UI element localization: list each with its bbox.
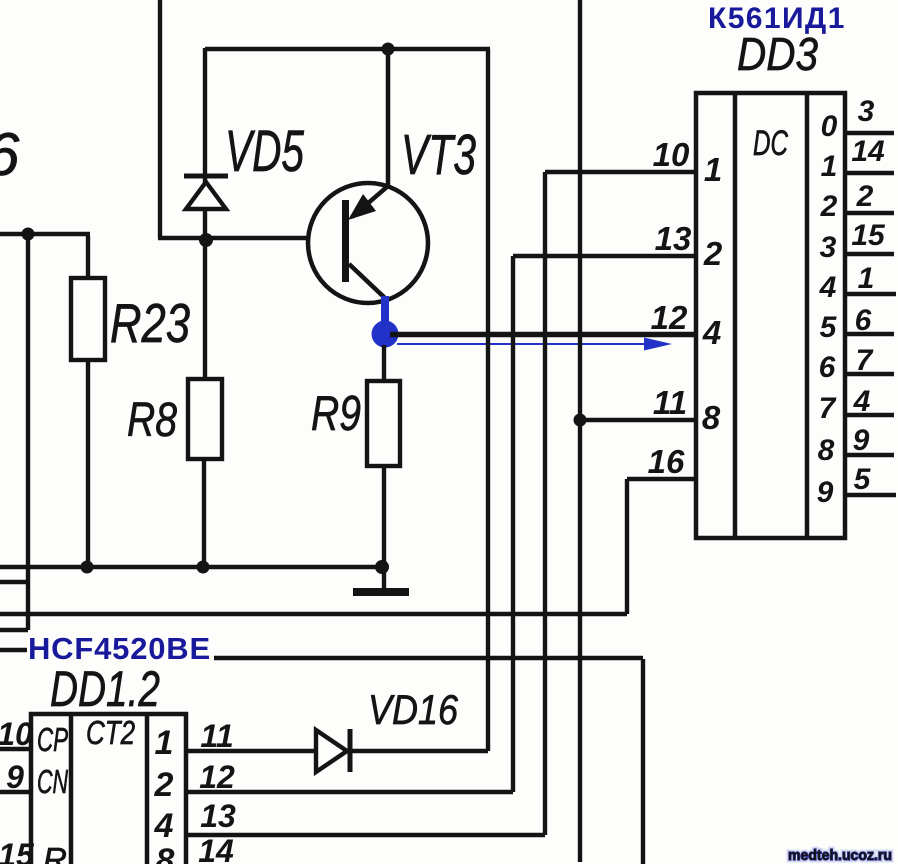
wire: VT3 collector lead vertical <box>386 49 391 188</box>
output 6 line pin 7 <box>845 372 894 376</box>
svg-text:8: 8 <box>156 842 175 864</box>
svg-text:2: 2 <box>856 180 874 213</box>
wire: exit stub y=630 <box>0 628 28 632</box>
wire: DD1.2 pin 10 input <box>0 747 31 751</box>
svg-text:CN: CN <box>37 763 68 800</box>
wire: R9 bottom lead <box>382 466 386 567</box>
junction dot bus D / pin11 wire <box>574 414 587 427</box>
svg-text:4: 4 <box>702 314 721 351</box>
svg-text:R: R <box>43 841 67 864</box>
svg-text:DD3: DD3 <box>737 28 818 80</box>
diode VD5 cathode bar <box>184 174 228 179</box>
svg-text:7: 7 <box>856 344 874 377</box>
svg-text:3: 3 <box>858 95 875 128</box>
svg-text:CT2: CT2 <box>86 714 135 751</box>
wire: bus D vertical full height <box>578 0 582 862</box>
wire: long rail y=614 <box>0 612 627 616</box>
svg-text:DC: DC <box>753 124 788 163</box>
svg-text:6: 6 <box>855 304 872 337</box>
wire: DD3 pin 16 input <box>627 477 696 481</box>
blue pointer line <box>397 343 650 345</box>
svg-text:15: 15 <box>0 837 35 864</box>
svg-text:R9: R9 <box>311 387 361 441</box>
svg-text:12: 12 <box>199 759 235 795</box>
svg-text:R23: R23 <box>110 292 190 354</box>
svg-text:2: 2 <box>154 766 174 804</box>
output 8 line pin 9 <box>845 453 894 457</box>
wire: bus C vertical (DD3 pin10 to DD1.2 pin13) <box>543 172 547 835</box>
junction dot R23/rail <box>81 561 94 574</box>
wire: DD1.2 pin 12 output <box>186 790 513 794</box>
svg-text:1: 1 <box>821 150 838 183</box>
svg-text:9: 9 <box>853 424 870 457</box>
wire: R23 top lead <box>86 236 90 278</box>
wire: VD16 to bus A <box>350 749 488 753</box>
svg-text:CP: CP <box>37 721 68 758</box>
wire: DD3 pin8 input (pin 11) <box>580 418 696 422</box>
IC DD3 right column divider <box>805 93 810 538</box>
svg-text:VT3: VT3 <box>401 123 476 187</box>
wire: DD1.2 pin 13 output <box>186 833 545 837</box>
svg-text:13: 13 <box>655 220 692 257</box>
wire: bus F vertical <box>641 659 645 864</box>
svg-text:1: 1 <box>155 724 174 762</box>
wire: rail corner to VD5 node and transistor base <box>158 236 344 240</box>
wire: R23 bottom lead <box>86 360 90 567</box>
svg-text:0: 0 <box>821 110 838 143</box>
transistor VT3 base bar <box>342 200 349 282</box>
svg-text:16: 16 <box>648 443 685 480</box>
wire: common rail y=567 <box>0 565 382 569</box>
svg-text:13: 13 <box>200 798 236 834</box>
transistor VT3 emitter diagonal <box>349 264 386 299</box>
wire: node to DD3 pin 12 <box>390 332 696 336</box>
IC DD1.2 outline (open bottom) <box>31 714 186 864</box>
svg-text:2: 2 <box>703 235 723 272</box>
wire: exit stub y=582 <box>0 580 28 584</box>
svg-text:R8: R8 <box>127 394 177 447</box>
blue pointer arrowhead <box>644 338 672 351</box>
junction dot VD5 node <box>199 233 213 247</box>
ground bar <box>353 588 409 596</box>
svg-text:14: 14 <box>198 833 234 864</box>
wire: bus A vertical (collector rail to VD16) <box>486 49 490 751</box>
svg-text:8: 8 <box>818 434 835 467</box>
svg-text:4: 4 <box>154 807 174 845</box>
svg-text:5: 5 <box>854 463 872 496</box>
diode VD16 triangle <box>316 730 347 772</box>
ground stem <box>382 567 386 589</box>
wire: rail y=658 (behind HCF label) <box>214 656 643 660</box>
wire: horizontal feed y=234 left edge <box>0 232 90 236</box>
svg-text:DD1.2: DD1.2 <box>50 661 160 717</box>
output 5 line pin 6 <box>845 332 894 336</box>
svg-text:VD5: VD5 <box>225 119 305 184</box>
svg-text:1: 1 <box>858 262 875 295</box>
svg-text:medteh.ucoz.ru: medteh.ucoz.ru <box>788 848 892 864</box>
wire: left supply rail vertical <box>158 0 162 238</box>
transistor VT3 circle <box>308 183 428 303</box>
svg-text:5: 5 <box>820 311 838 344</box>
output 2 line pin 2 <box>845 211 894 215</box>
svg-text:3: 3 <box>820 231 837 264</box>
wire: DD1.2 pin 11 output to VD16 <box>186 749 316 753</box>
wire: R8 bottom lead <box>202 459 206 567</box>
wire: rail y=650 left stub <box>0 648 27 652</box>
resistor R9 body <box>367 381 400 466</box>
svg-text:6: 6 <box>819 351 836 384</box>
wire: bus B vertical (DD3 pin13 to DD1.2 pin12) <box>511 256 515 792</box>
svg-text:11: 11 <box>653 384 687 421</box>
svg-text:7: 7 <box>819 392 837 425</box>
svg-text:15: 15 <box>851 219 886 252</box>
svg-text:1: 1 <box>704 151 722 188</box>
svg-text:12: 12 <box>651 299 688 336</box>
svg-text:VD16: VD16 <box>368 686 459 733</box>
transistor VT3 upper diagonal <box>352 186 388 217</box>
wire: DD3 pin1 input (pin 10) <box>545 170 696 174</box>
output 7 line pin 4 <box>845 413 894 417</box>
svg-text:14: 14 <box>851 135 885 168</box>
node: blue junction blob <box>372 321 399 348</box>
diode VD16 cathode bar <box>348 729 353 772</box>
svg-text:8: 8 <box>702 399 721 436</box>
IC DD1.2 right column divider <box>145 714 150 864</box>
svg-text:4: 4 <box>853 385 871 418</box>
wire: R9 top lead <box>382 345 386 381</box>
svg-text:2: 2 <box>820 190 838 223</box>
wire: bus E vertical (pin16) <box>625 479 629 614</box>
output 0 line pin 3 <box>845 131 894 135</box>
junction dot R8/rail <box>197 561 210 574</box>
wire: DD3 pin2 input (pin 13) <box>513 254 696 258</box>
svg-text:4: 4 <box>819 271 837 304</box>
output 4 line pin 1 <box>845 292 896 296</box>
junction dot collector/top rail <box>382 43 395 56</box>
svg-text:11: 11 <box>200 718 233 754</box>
svg-text:9: 9 <box>817 476 834 509</box>
svg-text:10: 10 <box>653 136 690 173</box>
IC DD1.2 left column divider <box>69 714 74 864</box>
resistor R8 body <box>188 379 222 459</box>
wire: vertical from dot x=28 <box>26 234 30 630</box>
svg-text:9: 9 <box>6 759 24 795</box>
wire: DD3 pin4 input (pin 12) right part <box>390 333 696 337</box>
wire: VD5 anode lead from top rail <box>203 48 207 379</box>
svg-text:10: 10 <box>0 716 33 752</box>
svg-text:6: 6 <box>0 121 20 188</box>
wire: blue emitter stub <box>381 296 389 322</box>
output 3 line pin 15 <box>845 252 894 256</box>
IC DD3 left column divider <box>733 93 738 538</box>
output 1 line pin 14 <box>845 171 894 175</box>
IC DD3 outline <box>696 93 845 538</box>
node junction dot at (28,234) <box>22 228 35 241</box>
diode VD5 triangle <box>186 182 226 209</box>
transistor VT3 arrow head <box>348 194 376 220</box>
resistor R23 body <box>71 278 105 360</box>
output 9 line pin 5 <box>845 493 896 497</box>
wire: DD1.2 pin 9 input <box>0 790 31 794</box>
junction dot ground node <box>375 560 389 574</box>
wire: top rail y=49 <box>205 47 490 51</box>
